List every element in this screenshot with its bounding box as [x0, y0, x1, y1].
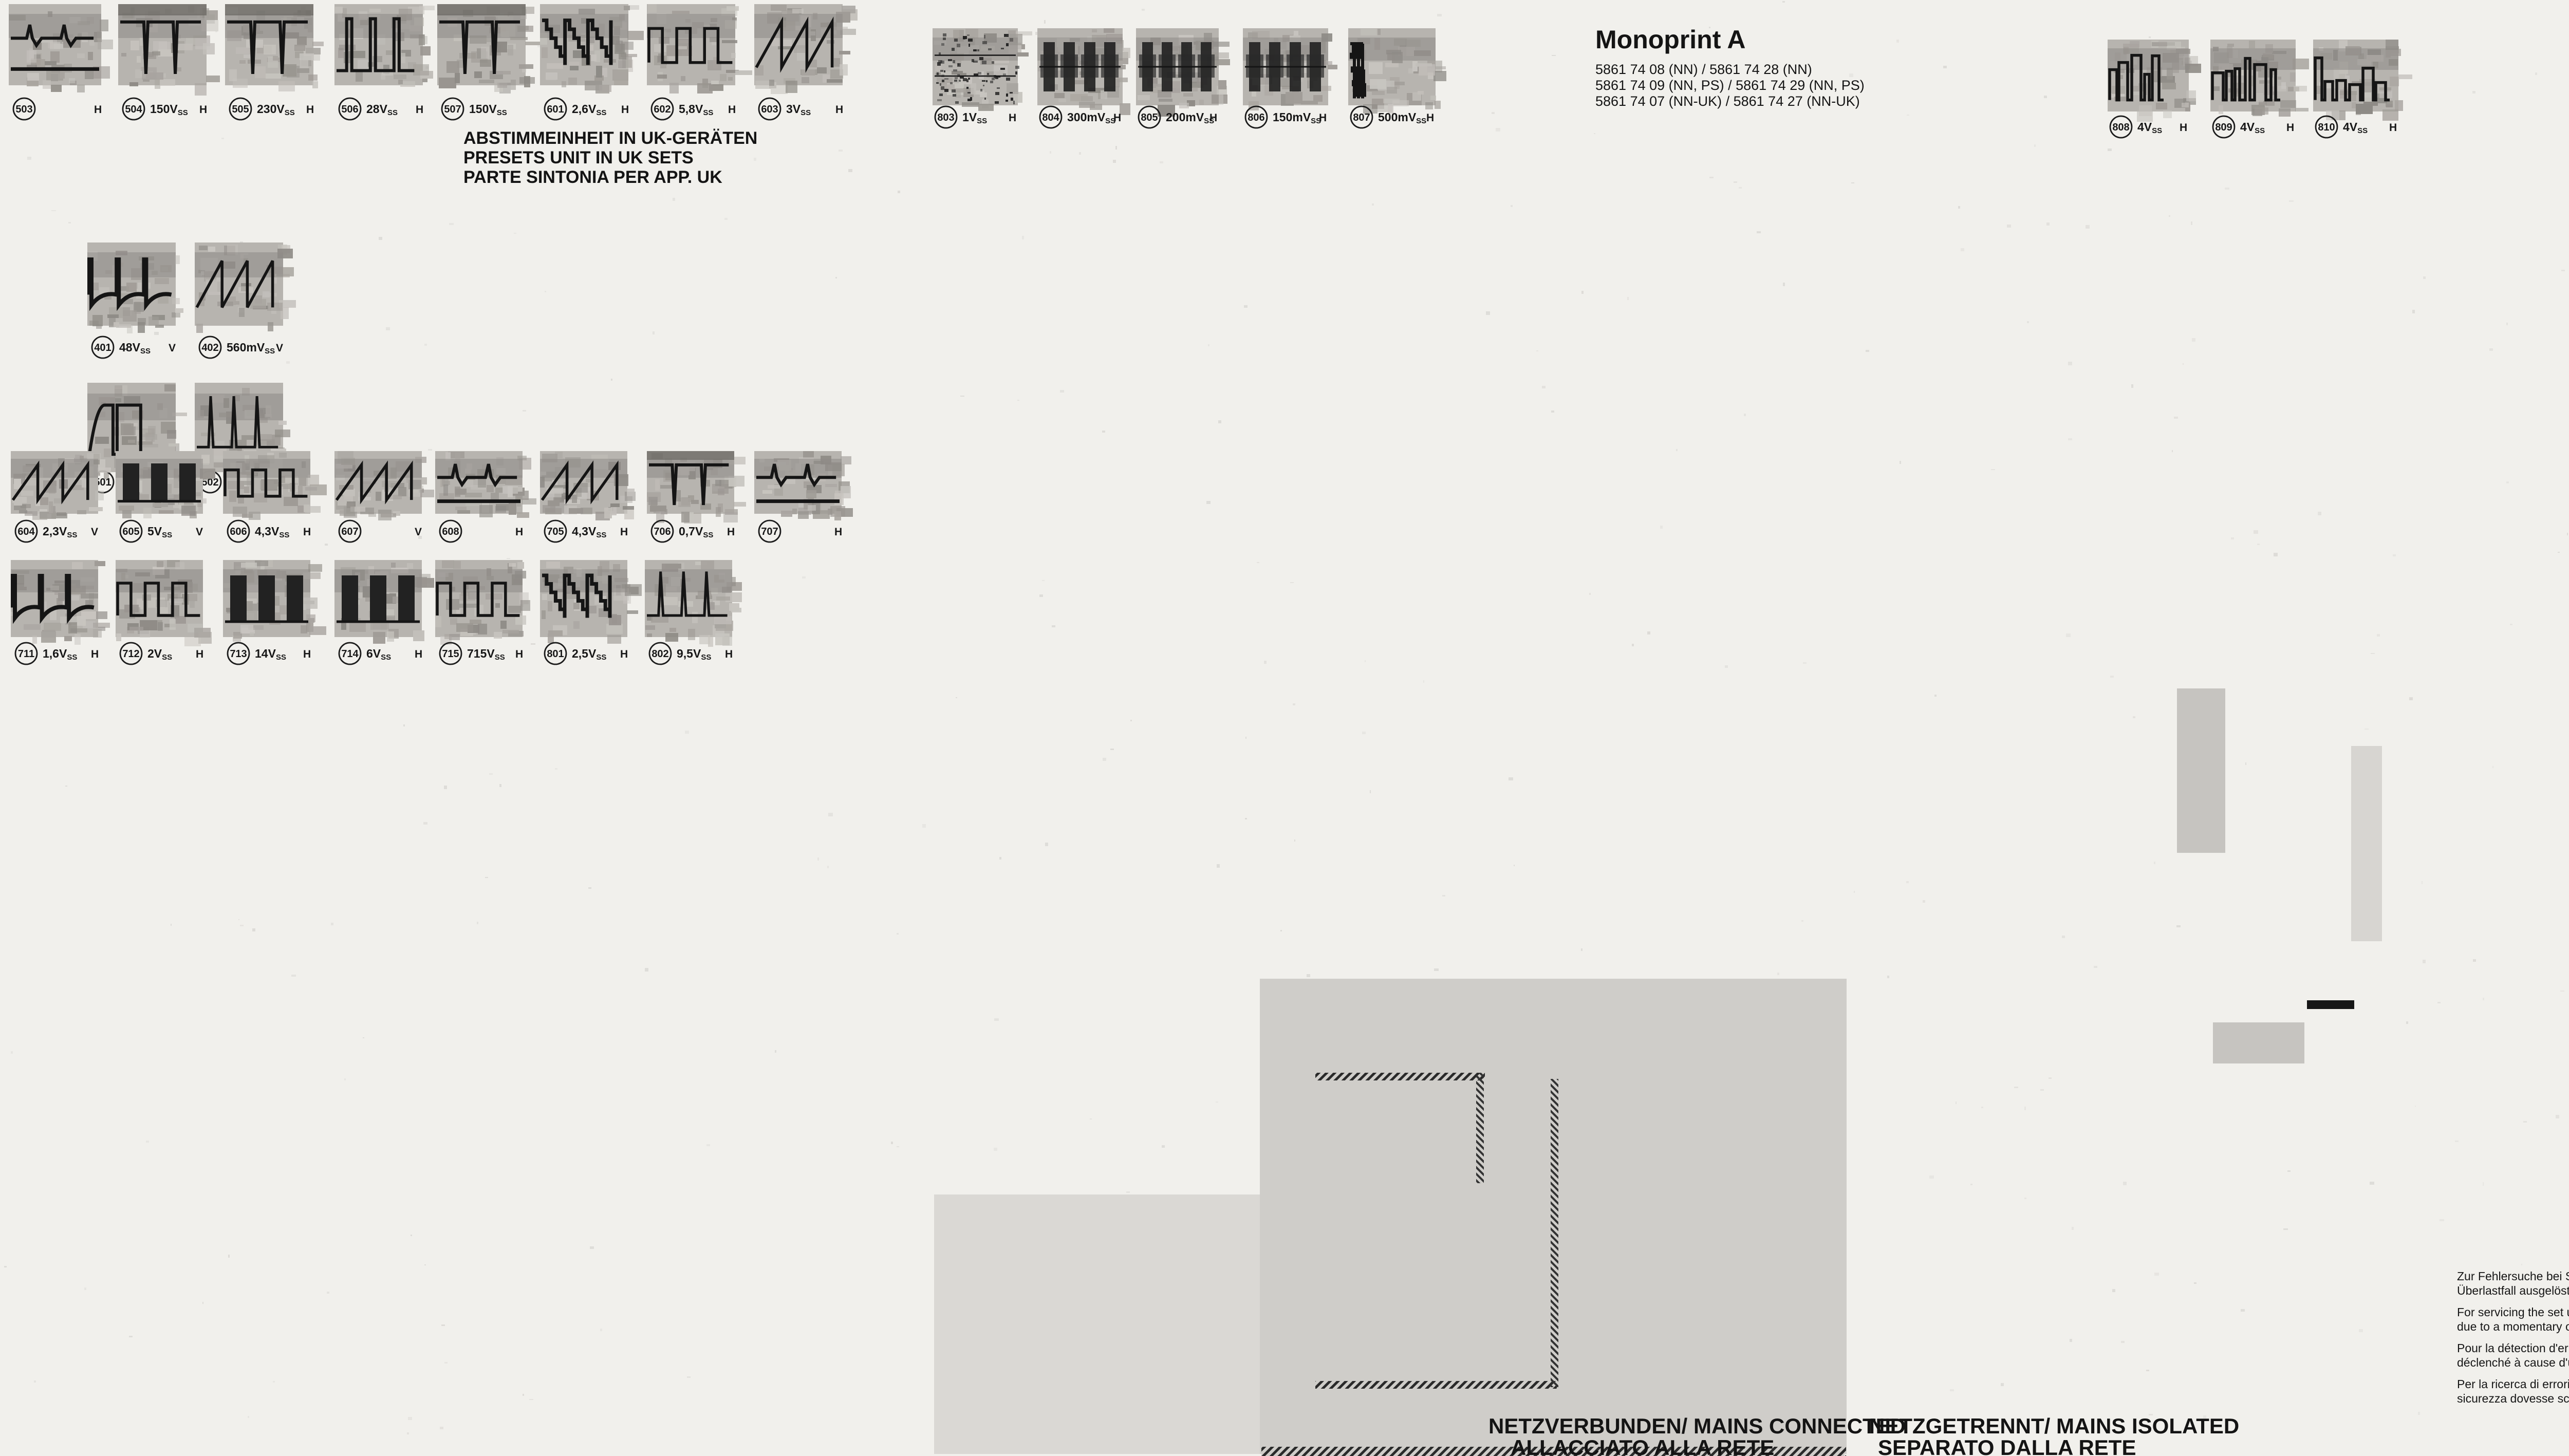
svg-text:H: H [1113, 112, 1121, 124]
oscillogram 707 [754, 451, 853, 520]
vert deflection coils gray strip [2177, 688, 2225, 853]
svg-text:2,5VSS: 2,5VSS [572, 647, 606, 662]
svg-text:150VSS: 150VSS [469, 102, 507, 117]
svg-text:2,3VSS: 2,3VSS [43, 525, 77, 539]
hatch border bottom [1261, 1448, 1845, 1456]
svg-text:1,6VSS: 1,6VSS [43, 647, 77, 662]
svg-text:H: H [303, 648, 311, 660]
svg-text:H: H [91, 648, 99, 660]
svg-text:H: H [725, 648, 733, 660]
svg-text:608: 608 [442, 526, 459, 537]
svg-text:5VSS: 5VSS [147, 525, 172, 539]
oscillogram 705 [540, 451, 636, 520]
svg-text:712: 712 [122, 648, 139, 660]
oscillogram 507 [437, 4, 541, 94]
oscillogram 802 [645, 560, 742, 647]
oscillogram 607 [334, 451, 434, 520]
oscillogram 602 [647, 4, 752, 94]
svg-text:506: 506 [341, 104, 358, 115]
oscillogram 706 [647, 451, 746, 524]
svg-text:715: 715 [442, 648, 459, 660]
svg-text:606: 606 [230, 526, 247, 537]
oscillogram 712 [116, 560, 212, 646]
svg-text:V: V [169, 342, 176, 354]
oscillogram 711 [11, 560, 110, 645]
svg-text:706: 706 [654, 526, 671, 537]
svg-text:150mVSS: 150mVSS [1273, 110, 1321, 125]
svg-text:14VSS: 14VSS [255, 647, 286, 662]
svg-text:300mVSS: 300mVSS [1067, 110, 1115, 125]
oscillogram 806 [1243, 28, 1337, 110]
svg-text:809: 809 [2215, 122, 2232, 133]
svg-text:H: H [728, 104, 736, 116]
svg-text:4,3VSS: 4,3VSS [255, 525, 289, 539]
beam current gray strip [2351, 746, 2382, 941]
svg-text:200mVSS: 200mVSS [1166, 110, 1214, 125]
svg-text:V: V [276, 342, 283, 354]
svg-text:H: H [196, 648, 203, 660]
oscillogram 807 [1348, 28, 1446, 114]
svg-text:H: H [834, 526, 842, 538]
svg-text:H: H [306, 104, 314, 116]
oscillogram 801 [540, 560, 642, 644]
svg-text:805: 805 [1141, 112, 1158, 123]
oscillogram 402 [195, 242, 296, 333]
svg-text:H: H [303, 526, 311, 538]
oscillogram 502 [195, 383, 290, 480]
svg-text:V: V [196, 526, 203, 538]
oscillogram 606 [223, 451, 327, 520]
svg-text:V: V [91, 526, 98, 538]
svg-text:4VSS: 4VSS [2137, 120, 2162, 135]
svg-text:560mVSS: 560mVSS [227, 341, 275, 356]
oscillogram 803 [933, 28, 1032, 111]
svg-text:2,6VSS: 2,6VSS [572, 102, 606, 117]
oscillogram 804 [1037, 28, 1130, 115]
oscillogram 601 [540, 4, 644, 94]
svg-text:H: H [94, 104, 102, 116]
svg-text:H: H [1009, 112, 1016, 124]
svg-text:4VSS: 4VSS [2240, 120, 2265, 135]
svg-text:H: H [1319, 112, 1327, 124]
svg-text:H: H [416, 104, 423, 116]
svg-text:504: 504 [125, 104, 142, 115]
svg-text:28VSS: 28VSS [366, 102, 398, 117]
svg-text:711: 711 [18, 648, 34, 660]
svg-text:503: 503 [15, 104, 32, 115]
oscillogram 715 [435, 560, 530, 645]
oscillogram 503 [9, 4, 113, 92]
oscillogram 504 [118, 4, 220, 96]
svg-text:230VSS: 230VSS [257, 102, 295, 117]
oscillogram 608 [435, 451, 536, 518]
oscillogram 808 [2108, 40, 2201, 122]
svg-text:603: 603 [761, 104, 778, 115]
svg-text:5,8VSS: 5,8VSS [679, 102, 713, 117]
svg-text:804: 804 [1042, 112, 1059, 123]
svg-text:3VSS: 3VSS [786, 102, 811, 117]
svg-text:2VSS: 2VSS [147, 647, 172, 662]
svg-text:713: 713 [230, 648, 247, 660]
svg-text:H: H [835, 104, 843, 116]
svg-text:150VSS: 150VSS [150, 102, 188, 117]
svg-text:H: H [199, 104, 207, 116]
oscillogram 401 [87, 242, 183, 333]
svg-text:9,5VSS: 9,5VSS [677, 647, 711, 662]
svg-text:4,3VSS: 4,3VSS [572, 525, 606, 539]
svg-text:605: 605 [122, 526, 139, 537]
svg-text:601: 601 [547, 104, 564, 115]
svg-text:H: H [621, 104, 629, 116]
oscillogram 605 [116, 451, 215, 518]
svg-text:H: H [515, 526, 523, 538]
oscillogram 714 [334, 560, 434, 644]
svg-text:604: 604 [17, 526, 35, 537]
svg-text:808: 808 [2112, 122, 2129, 133]
svg-text:810: 810 [2318, 122, 2335, 133]
oscillogram 506 [334, 4, 435, 87]
svg-text:H: H [415, 648, 422, 660]
oscillogram 604 [11, 451, 111, 520]
oscillogram 809 [2210, 40, 2309, 117]
svg-text:500mVSS: 500mVSS [1378, 110, 1426, 125]
svg-text:803: 803 [937, 112, 954, 123]
svg-text:0,7VSS: 0,7VSS [679, 525, 713, 539]
svg-text:6VSS: 6VSS [366, 647, 391, 662]
svg-text:H: H [620, 648, 628, 660]
svg-text:714: 714 [341, 648, 359, 660]
svg-text:4VSS: 4VSS [2343, 120, 2368, 135]
svg-text:507: 507 [444, 104, 461, 115]
svg-text:602: 602 [654, 104, 671, 115]
oscillogram 505 [225, 4, 324, 91]
svg-text:715VSS: 715VSS [467, 647, 505, 662]
svg-text:V: V [415, 526, 422, 538]
hor deflection coils gray box [2213, 1022, 2304, 1063]
svg-text:807: 807 [1353, 112, 1370, 123]
oscillogram 805 [1136, 28, 1230, 117]
oscillogram 603 [754, 4, 858, 94]
svg-text:H: H [2180, 122, 2187, 134]
oscillogram 501 [87, 383, 187, 479]
oscillogram 713 [223, 560, 326, 642]
svg-text:802: 802 [651, 648, 668, 660]
svg-text:H: H [620, 526, 628, 538]
svg-text:H: H [2389, 122, 2397, 134]
svg-text:505: 505 [232, 104, 249, 115]
svg-text:H: H [2286, 122, 2294, 134]
svg-text:48VSS: 48VSS [119, 341, 151, 356]
svg-text:H: H [1209, 112, 1217, 124]
svg-text:401: 401 [94, 342, 111, 353]
svg-text:705: 705 [547, 526, 564, 537]
power supply gray board region [1260, 979, 1847, 1454]
svg-text:1VSS: 1VSS [962, 110, 987, 125]
oscillogram 810 [2313, 40, 2412, 121]
svg-text:707: 707 [761, 526, 778, 537]
svg-text:806: 806 [1248, 112, 1264, 123]
svg-text:402: 402 [201, 342, 218, 353]
svg-text:607: 607 [341, 526, 358, 537]
svg-text:H: H [515, 648, 523, 660]
svg-text:801: 801 [547, 648, 564, 660]
svg-text:H: H [1426, 112, 1434, 124]
svg-text:H: H [727, 526, 735, 538]
